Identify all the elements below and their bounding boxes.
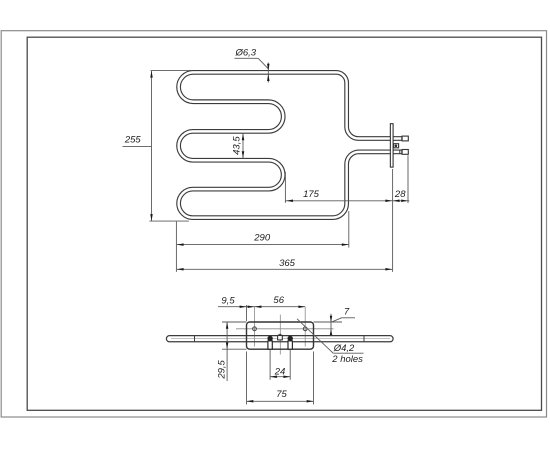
dimension 365 line	[177, 268, 392, 270]
hole left	[253, 327, 257, 331]
svg-text:255: 255	[124, 135, 142, 146]
dimension 290 line	[177, 244, 349, 246]
dimension 29,5	[222, 321, 247, 323]
horizontal centerline through holes	[236, 328, 334, 330]
dimension 255 extension top	[151, 70, 192, 72]
lower terminal pin	[399, 150, 401, 154]
inner border frame	[27, 37, 541, 410]
hole right	[303, 327, 307, 331]
dimension 255 line	[151, 71, 153, 221]
svg-text:2 holes: 2 holes	[331, 354, 363, 365]
svg-text:75: 75	[276, 389, 287, 400]
svg-text:43,5: 43,5	[232, 136, 243, 155]
dimension O6,3 leader	[235, 57, 259, 59]
svg-text:Ø6,3: Ø6,3	[234, 48, 256, 59]
dimension 43,5 line	[242, 134, 244, 159]
hole centerline vertical right	[304, 307, 306, 347]
svg-text:Ø4,2: Ø4,2	[333, 343, 355, 354]
svg-text:56: 56	[273, 295, 284, 306]
center mounting stud (side view)	[394, 144, 399, 148]
dimension 175/28 shared line	[285, 200, 409, 202]
heating element tube (serpentine, dark outline)	[179, 72, 402, 217]
terminal dot left	[267, 336, 272, 341]
svg-text:29,5: 29,5	[217, 359, 228, 379]
upper terminal pin	[401, 136, 403, 140]
extension line at pin end	[407, 155, 409, 203]
leader O4,2	[297, 319, 333, 353]
svg-text:24: 24	[274, 366, 286, 377]
dimension 255 extension bottom	[149, 220, 189, 222]
bar seam right	[363, 336, 365, 342]
dimension 7	[314, 321, 343, 323]
svg-text:365: 365	[279, 258, 296, 269]
svg-text:9,5: 9,5	[221, 296, 235, 307]
mounting flange plate (side view)	[390, 124, 393, 167]
svg-text:28: 28	[394, 189, 406, 200]
dimension 75	[246, 352, 248, 405]
long extension line at flange face	[392, 169, 394, 272]
bar seam left	[194, 336, 196, 342]
9,5 left extension	[246, 305, 248, 321]
hole centerline vertical left	[254, 307, 256, 347]
dimension 24	[269, 350, 271, 380]
bar centerline	[171, 338, 390, 340]
dimension 9,5 / 56 shared line	[218, 306, 305, 308]
stud axis centerline	[279, 315, 281, 355]
bracket plate (top view)	[247, 322, 314, 349]
terminal dot right	[288, 336, 293, 341]
heating element tube (white core, makes double line)	[179, 72, 402, 217]
svg-text:290: 290	[253, 233, 271, 244]
tube bar (top view)	[166, 336, 393, 342]
extension line at tube right bend	[284, 172, 286, 203]
svg-text:175: 175	[303, 189, 320, 200]
svg-text:7: 7	[344, 307, 350, 318]
stud square (top view)	[278, 336, 283, 340]
